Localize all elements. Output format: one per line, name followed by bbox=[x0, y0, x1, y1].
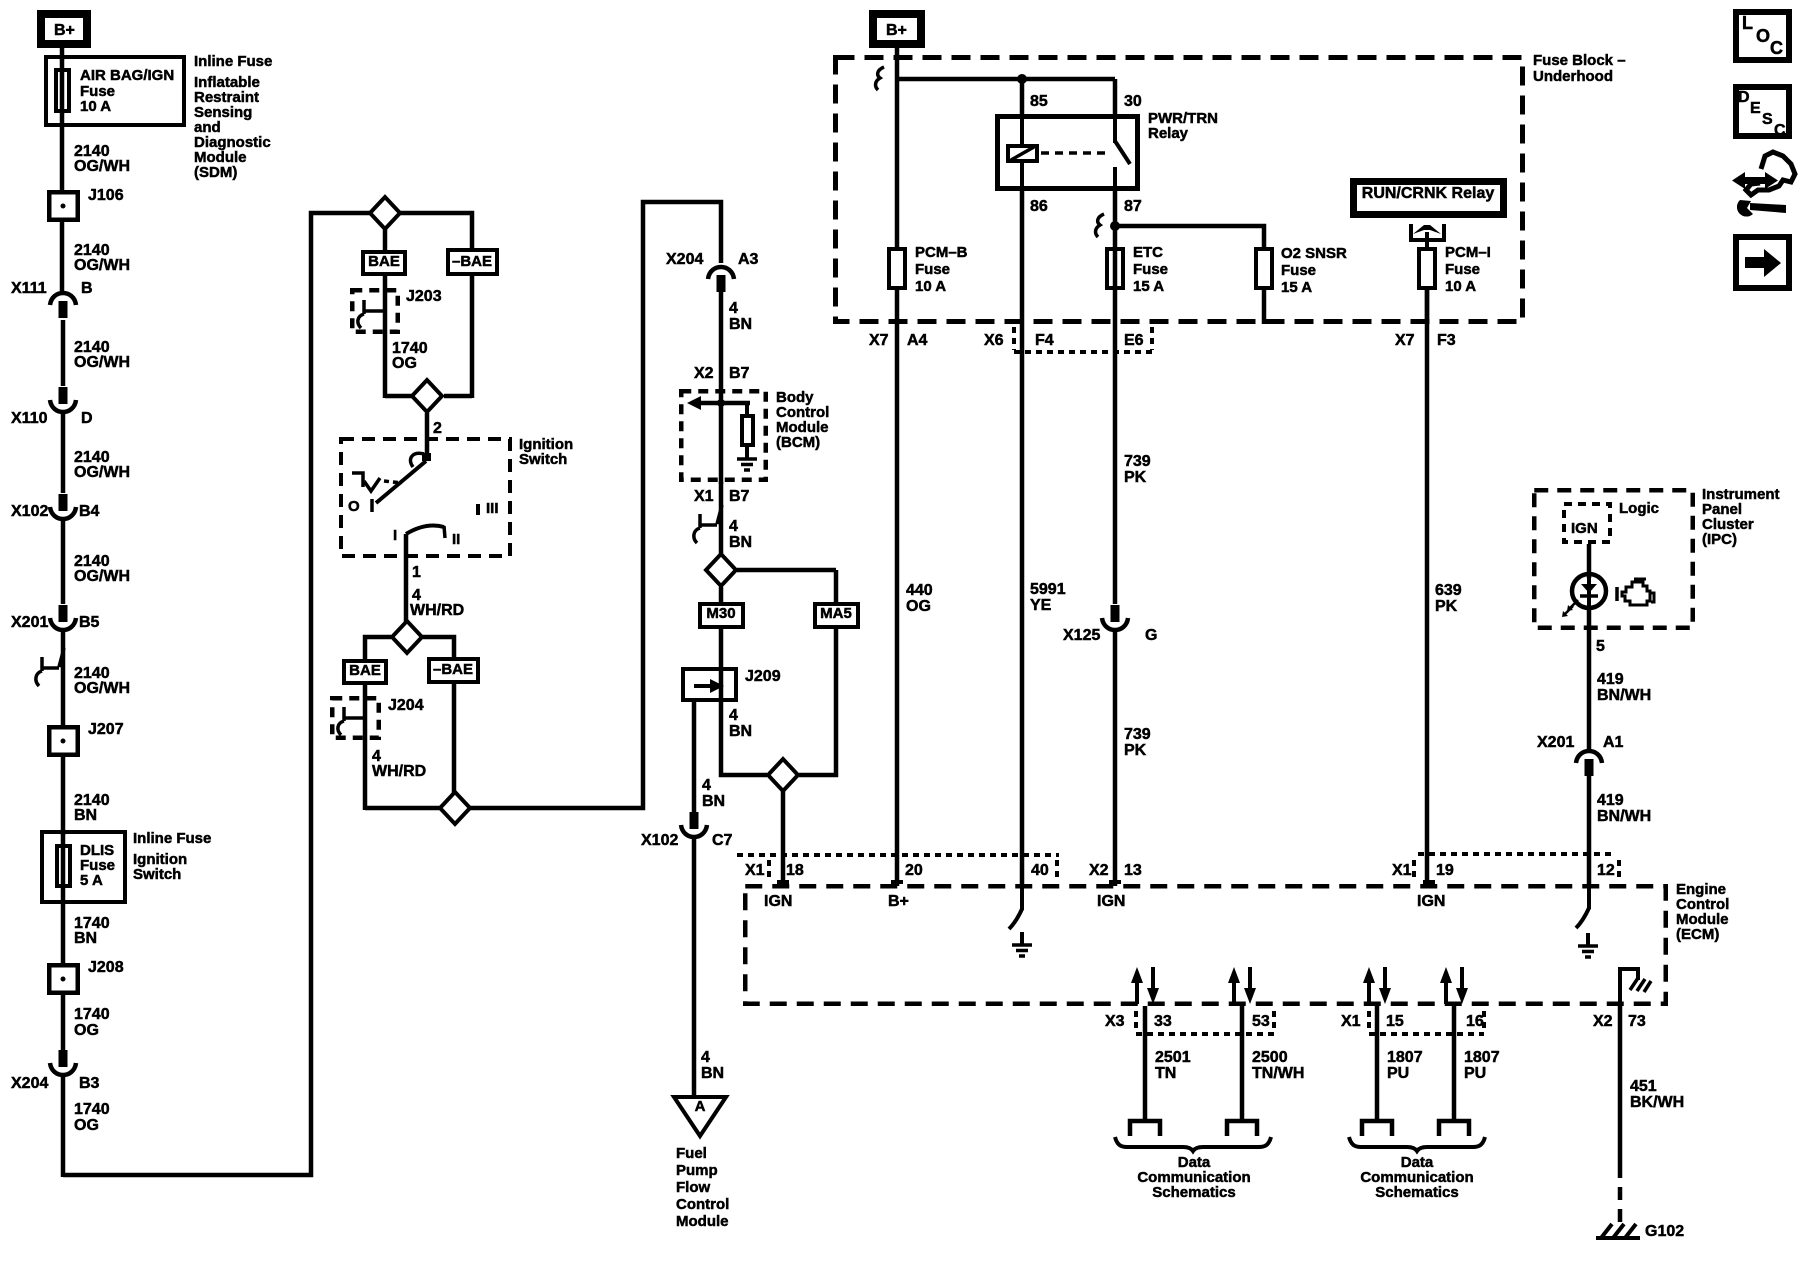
terminal BAE lower bbox=[344, 661, 386, 683]
svg-text:X7: X7 bbox=[869, 332, 889, 349]
svg-text:OG/WH: OG/WH bbox=[74, 158, 130, 175]
wire 2140 OG/WH X201 to J207 bbox=[61, 631, 66, 727]
wire 2140 OG/WH X110 to X102 bbox=[61, 413, 66, 493]
svg-text:F4: F4 bbox=[1035, 332, 1054, 349]
svg-text:Module: Module bbox=[676, 1213, 729, 1230]
svg-text:X110: X110 bbox=[11, 410, 48, 427]
svg-text:1740: 1740 bbox=[74, 1101, 110, 1118]
svg-text:C7: C7 bbox=[712, 832, 733, 849]
svg-text:PK: PK bbox=[1435, 598, 1458, 615]
svg-text:B+: B+ bbox=[54, 22, 75, 39]
brace data communication left bbox=[1115, 1137, 1271, 1151]
svg-text:86: 86 bbox=[1030, 198, 1048, 215]
svg-text:J203: J203 bbox=[406, 288, 442, 305]
wire diamond to -BAE branch bbox=[399, 213, 472, 250]
ignition switch positions I II arc bbox=[406, 526, 444, 534]
svg-text:16: 16 bbox=[1466, 1013, 1484, 1030]
svg-text:B5: B5 bbox=[79, 614, 100, 631]
connector X6 strip (dotted) bbox=[1012, 327, 1016, 350]
terminal MA5 bbox=[815, 604, 858, 627]
svg-text:OG/WH: OG/WH bbox=[74, 680, 130, 697]
BCM internal ground bbox=[737, 457, 757, 461]
svg-text:X2: X2 bbox=[1089, 862, 1109, 879]
svg-text:440: 440 bbox=[906, 582, 933, 599]
svg-text:639: 639 bbox=[1435, 582, 1462, 599]
svg-text:X204: X204 bbox=[11, 1075, 48, 1092]
svg-text:15 A: 15 A bbox=[1133, 278, 1164, 295]
svg-text:2: 2 bbox=[433, 420, 442, 437]
wire 1807 PU data 2 bbox=[1452, 1006, 1457, 1121]
svg-text:BN: BN bbox=[701, 1065, 724, 1082]
svg-text:BAE: BAE bbox=[368, 253, 400, 270]
splice diamond above BAE bbox=[370, 197, 400, 229]
svg-text:E6: E6 bbox=[1124, 332, 1144, 349]
svg-text:BN: BN bbox=[729, 723, 752, 740]
wire 2140 OG/WH X111 to X110 bbox=[61, 320, 66, 386]
svg-text:G102: G102 bbox=[1645, 1223, 1684, 1240]
wire 440 OG PCM-B fuse to ECM pin 20 bbox=[895, 290, 900, 886]
wire 2140 OG/WH J106 to X111 bbox=[60, 222, 65, 292]
inline fuse AIR BAG/IGN box bbox=[46, 57, 184, 125]
svg-text:(BCM): (BCM) bbox=[776, 434, 820, 451]
svg-text:BN: BN bbox=[729, 316, 752, 333]
svg-text:ETC: ETC bbox=[1133, 244, 1163, 261]
svg-text:III: III bbox=[486, 500, 499, 517]
clip at X201 bbox=[36, 648, 64, 686]
ground G102 symbol bbox=[1596, 1236, 1640, 1240]
svg-text:X7: X7 bbox=[1395, 332, 1415, 349]
check engine icon bbox=[1615, 587, 1619, 601]
ECM pin terminal feet bbox=[777, 880, 789, 884]
ECM internal switch to ground at pin 40 bbox=[1020, 886, 1024, 910]
fuse PCM-I 10A bbox=[1419, 249, 1435, 288]
svg-text:Inline Fuse: Inline Fuse bbox=[133, 830, 211, 847]
svg-text:X2: X2 bbox=[1593, 1013, 1613, 1030]
svg-text:X102: X102 bbox=[11, 503, 48, 520]
svg-text:5 A: 5 A bbox=[80, 872, 103, 889]
svg-text:OG: OG bbox=[392, 355, 417, 372]
svg-text:Underhood: Underhood bbox=[1533, 68, 1613, 85]
power feed B+ symbol (fuse block) bbox=[873, 14, 921, 44]
svg-text:IGN: IGN bbox=[1417, 893, 1445, 910]
svg-text:739: 739 bbox=[1124, 726, 1151, 743]
RUN/CRNK Relay source box bbox=[1354, 182, 1504, 215]
wire 5991 YE relay 86 to ECM pin 40 bbox=[1020, 324, 1025, 886]
wire 1807 PU data bbox=[1375, 1006, 1380, 1121]
ECM data link arrows bbox=[1135, 980, 1139, 1004]
brace data communication right bbox=[1349, 1137, 1485, 1151]
BCM internal arrow to logic bbox=[700, 401, 750, 406]
svg-text:X1: X1 bbox=[745, 862, 765, 879]
splice diamond to ignition switch bbox=[385, 394, 412, 399]
svg-text:85: 85 bbox=[1030, 93, 1048, 110]
junction block J204 (dashed) bbox=[332, 698, 379, 738]
svg-text:Fuse: Fuse bbox=[1133, 261, 1168, 278]
connector X102 terminal C7 bbox=[690, 812, 699, 829]
svg-text:10 A: 10 A bbox=[80, 98, 111, 115]
svg-text:BAE: BAE bbox=[349, 662, 381, 679]
svg-text:OG: OG bbox=[74, 1022, 99, 1039]
svg-text:MA5: MA5 bbox=[820, 605, 852, 622]
svg-text:5991: 5991 bbox=[1030, 581, 1066, 598]
svg-text:451: 451 bbox=[1630, 1078, 1657, 1095]
svg-text:PK: PK bbox=[1124, 469, 1147, 486]
svg-text:Flow: Flow bbox=[676, 1179, 710, 1196]
svg-text:Switch: Switch bbox=[133, 866, 181, 883]
wire to BAE lower left bbox=[365, 637, 391, 661]
fuse PCM-B 10A bbox=[889, 249, 905, 288]
fuse O2 SNSR 15A bbox=[1256, 249, 1272, 288]
svg-text:TN: TN bbox=[1155, 1065, 1176, 1082]
wire ignition switch pin 1 down bbox=[404, 534, 409, 622]
svg-text:X1: X1 bbox=[1392, 862, 1412, 879]
svg-text:J209: J209 bbox=[745, 668, 781, 685]
connector X110 terminal D bbox=[59, 387, 68, 404]
ECM internal ground output to pin 73 bbox=[1620, 969, 1638, 1004]
svg-text:B: B bbox=[81, 280, 93, 297]
svg-text:X6: X6 bbox=[984, 332, 1004, 349]
wire 1740 OG J208 to X204 bbox=[61, 995, 66, 1050]
ECM connector strip pins 19 12 (dotted) bbox=[1418, 852, 1612, 856]
svg-text:Fuse: Fuse bbox=[1281, 262, 1316, 279]
icon jump arrows and wrench bbox=[1732, 172, 1745, 189]
wire 2140 OG/WH fuse to J106 bbox=[60, 127, 65, 192]
instrument panel cluster IPC box (dashed) bbox=[1534, 490, 1693, 628]
svg-text:(IPC): (IPC) bbox=[1702, 531, 1737, 548]
ECM connector X1 strip (dotted) bbox=[737, 853, 1059, 857]
svg-text:AIR BAG/IGN: AIR BAG/IGN bbox=[80, 67, 174, 84]
svg-text:419: 419 bbox=[1597, 671, 1624, 688]
svg-text:B7: B7 bbox=[729, 365, 750, 382]
svg-text:WH/RD: WH/RD bbox=[410, 602, 464, 619]
svg-text:X201: X201 bbox=[1537, 734, 1574, 751]
clip in J203 bbox=[358, 300, 385, 328]
fuse AIR BAG/IGN 10A element bbox=[60, 58, 65, 124]
svg-text:Fuse: Fuse bbox=[1445, 261, 1480, 278]
svg-text:TN/WH: TN/WH bbox=[1252, 1065, 1304, 1082]
svg-text:419: 419 bbox=[1597, 792, 1624, 809]
svg-text:F3: F3 bbox=[1437, 332, 1456, 349]
svg-text:G: G bbox=[1145, 627, 1157, 644]
IPC logic block IGN (dashed) bbox=[1564, 504, 1610, 542]
svg-text:BN: BN bbox=[702, 793, 725, 810]
svg-text:18: 18 bbox=[786, 862, 804, 879]
svg-text:73: 73 bbox=[1628, 1013, 1646, 1030]
svg-text:20: 20 bbox=[905, 862, 923, 879]
svg-text:53: 53 bbox=[1252, 1013, 1270, 1030]
PWR/TRN relay box bbox=[998, 117, 1138, 189]
wire 4 BN X102 to fuel pump module bbox=[692, 838, 697, 1099]
svg-text:J208: J208 bbox=[88, 959, 124, 976]
svg-text:(SDM): (SDM) bbox=[194, 164, 237, 181]
svg-text:OG/WH: OG/WH bbox=[74, 568, 130, 585]
svg-text:2501: 2501 bbox=[1155, 1049, 1191, 1066]
relay coil-contact link (dashed) bbox=[1041, 151, 1105, 155]
svg-text:O2 SNSR: O2 SNSR bbox=[1281, 245, 1347, 262]
terminal -BAE bbox=[448, 250, 497, 274]
svg-text:L: L bbox=[1742, 13, 1753, 33]
icon DESC box bbox=[1736, 87, 1789, 136]
wire 1740 OG below BAE bbox=[383, 276, 388, 398]
svg-text:1807: 1807 bbox=[1387, 1049, 1423, 1066]
wire through BCM bbox=[719, 390, 724, 484]
svg-text:PU: PU bbox=[1464, 1065, 1486, 1082]
svg-text:IGN: IGN bbox=[1097, 893, 1125, 910]
svg-text:10 A: 10 A bbox=[915, 278, 946, 295]
wire to PWR/TRN relay coil and contact bbox=[897, 77, 1115, 82]
svg-text:(ECM): (ECM) bbox=[1676, 926, 1719, 943]
wire IGN to indicator LED bbox=[1587, 544, 1592, 578]
wire 2140 OG/WH X102 to X201 bbox=[61, 520, 66, 604]
wire 739 PK ETC fuse to X125 bbox=[1113, 324, 1118, 604]
wire splice to X204 A3 run bbox=[470, 202, 721, 808]
terminal M30 bbox=[719, 587, 724, 604]
svg-text:1: 1 bbox=[412, 564, 421, 581]
svg-text:Fuse: Fuse bbox=[915, 261, 950, 278]
splice diamond to ECM IGN feed bbox=[768, 759, 798, 791]
svg-text:BK/WH: BK/WH bbox=[1630, 1094, 1684, 1111]
clip at X1 B7 bbox=[694, 505, 722, 543]
svg-text:–BAE: –BAE bbox=[452, 253, 492, 270]
junction block J203 (dashed) bbox=[352, 290, 398, 332]
indicator LED circle bbox=[1572, 574, 1606, 608]
svg-text:Fuse Block –: Fuse Block – bbox=[1533, 52, 1626, 69]
svg-text:Schematics: Schematics bbox=[1375, 1184, 1458, 1201]
wire diamond to BAE branch bbox=[383, 228, 388, 252]
relay coil bbox=[1020, 114, 1024, 146]
svg-text:1740: 1740 bbox=[74, 1006, 110, 1023]
ignition switch ACC contact bbox=[352, 473, 363, 487]
svg-text:739: 739 bbox=[1124, 453, 1151, 470]
ECM bottom pin strips (dotted) bbox=[1134, 1011, 1138, 1031]
wire 451 BK/WH to G102 bbox=[1618, 1006, 1623, 1165]
splice J207 bbox=[49, 727, 78, 755]
svg-text:Fuel: Fuel bbox=[676, 1145, 707, 1162]
wire 2500 TN/WH data bbox=[1240, 1006, 1245, 1121]
splice J106 bbox=[49, 192, 78, 220]
svg-text:E: E bbox=[1750, 100, 1761, 117]
connector X102 terminal B4 bbox=[59, 494, 68, 511]
svg-text:Pump: Pump bbox=[676, 1162, 718, 1179]
wire 2140 BN J207 to DLIS fuse bbox=[61, 757, 66, 835]
splice J208 bbox=[49, 965, 78, 993]
junction node relay pin 85 bbox=[1017, 74, 1027, 84]
svg-text:Logic: Logic bbox=[1619, 500, 1659, 517]
ignition switch movable contact bbox=[410, 453, 424, 467]
ignition switch position III bbox=[476, 504, 480, 515]
svg-text:4: 4 bbox=[702, 777, 711, 794]
svg-text:87: 87 bbox=[1124, 198, 1142, 215]
svg-text:A3: A3 bbox=[738, 251, 759, 268]
body control module BCM box (dashed) bbox=[681, 391, 766, 480]
svg-text:M30: M30 bbox=[706, 605, 735, 622]
svg-text:D: D bbox=[81, 410, 93, 427]
svg-text:B4: B4 bbox=[79, 503, 100, 520]
svg-text:4: 4 bbox=[729, 707, 738, 724]
svg-text:RUN/CRNK Relay: RUN/CRNK Relay bbox=[1362, 185, 1495, 202]
svg-text:S: S bbox=[1762, 111, 1773, 128]
svg-text:J106: J106 bbox=[88, 187, 124, 204]
svg-text:PU: PU bbox=[1387, 1065, 1409, 1082]
svg-text:X1: X1 bbox=[694, 488, 714, 505]
connector X204 terminal B3 bbox=[59, 1050, 68, 1067]
relay contact blade pins 30-87 bbox=[1113, 114, 1117, 143]
svg-text:2500: 2500 bbox=[1252, 1049, 1288, 1066]
svg-text:B3: B3 bbox=[79, 1075, 100, 1092]
wire splice to ECM pin 18 bbox=[781, 791, 786, 886]
wire B+ to inline fuse bbox=[60, 44, 65, 60]
svg-text:WH/RD: WH/RD bbox=[372, 763, 426, 780]
power feed B+ (battery positive) symbol bbox=[41, 14, 87, 44]
svg-text:4: 4 bbox=[729, 300, 738, 317]
svg-text:13: 13 bbox=[1124, 862, 1142, 879]
svg-text:YE: YE bbox=[1030, 597, 1052, 614]
terminal -BAE lower bbox=[429, 659, 478, 682]
terminal BAE bbox=[363, 252, 405, 274]
svg-text:30: 30 bbox=[1124, 93, 1142, 110]
svg-text:X3: X3 bbox=[1105, 1013, 1125, 1030]
wire IPC pin 5 to X201 A1 bbox=[1587, 608, 1592, 750]
svg-text:Schematics: Schematics bbox=[1152, 1184, 1235, 1201]
splice diamond output bbox=[365, 806, 440, 811]
wire splice to ignition switch pin 2 bbox=[425, 413, 430, 458]
fuse ETC 15A bbox=[1107, 249, 1123, 288]
svg-text:PK: PK bbox=[1124, 742, 1147, 759]
svg-text:BN/WH: BN/WH bbox=[1597, 808, 1651, 825]
junction block J209 bbox=[683, 669, 736, 700]
svg-text:12: 12 bbox=[1597, 862, 1615, 879]
ignition switch box (dashed) bbox=[341, 439, 510, 556]
svg-text:5: 5 bbox=[1596, 638, 1605, 655]
splice diamond to M30/MA5 bbox=[706, 554, 736, 586]
icon LOC box bbox=[1736, 12, 1789, 60]
underhood fuse block box (dashed) bbox=[836, 58, 1523, 322]
wire M30 to J209 bbox=[719, 629, 724, 670]
svg-text:O: O bbox=[1756, 26, 1770, 46]
svg-text:B+: B+ bbox=[888, 893, 909, 910]
svg-text:PCM–I: PCM–I bbox=[1445, 244, 1491, 261]
relay pin 86 wire bbox=[1020, 191, 1025, 324]
connector X201 terminal B5 bbox=[59, 605, 68, 622]
svg-text:OG/WH: OG/WH bbox=[74, 464, 130, 481]
svg-text:15: 15 bbox=[1386, 1013, 1404, 1030]
RUN/CRNK relay output symbol bbox=[1409, 224, 1413, 242]
off-page triangle A fuel pump flow control module bbox=[674, 1097, 726, 1136]
clip in J204 bbox=[338, 707, 365, 735]
splice diamond below ignition switch bbox=[392, 621, 422, 653]
svg-text:OG: OG bbox=[74, 1117, 99, 1134]
wire B+ into fuse block bbox=[895, 44, 900, 250]
svg-text:Control: Control bbox=[676, 1196, 729, 1213]
wire 2501 TN data bbox=[1143, 1006, 1148, 1121]
svg-text:I: I bbox=[393, 527, 397, 544]
svg-text:X111: X111 bbox=[11, 280, 47, 297]
svg-text:Switch: Switch bbox=[519, 451, 567, 468]
svg-text:B+: B+ bbox=[886, 22, 907, 39]
svg-text:Inline Fuse: Inline Fuse bbox=[194, 53, 272, 70]
svg-text:–BAE: –BAE bbox=[433, 661, 473, 678]
svg-text:IGN: IGN bbox=[764, 893, 792, 910]
svg-text:B7: B7 bbox=[729, 488, 750, 505]
svg-text:X2: X2 bbox=[694, 365, 714, 382]
svg-text:1807: 1807 bbox=[1464, 1049, 1500, 1066]
svg-text:PCM–B: PCM–B bbox=[915, 244, 968, 261]
svg-text:4: 4 bbox=[701, 1049, 710, 1066]
svg-text:O: O bbox=[348, 498, 360, 515]
ECM internal switch to ground at pin 12 bbox=[1587, 886, 1591, 909]
wire 1740 OG X204 to ignition switch feed bbox=[61, 1076, 66, 1177]
svg-text:OG: OG bbox=[906, 598, 931, 615]
svg-text:19: 19 bbox=[1436, 862, 1454, 879]
svg-text:X1: X1 bbox=[1341, 1013, 1361, 1030]
svg-text:X204: X204 bbox=[666, 251, 703, 268]
wire run across bottom and up to splice diamond bbox=[63, 213, 371, 1175]
svg-text:15 A: 15 A bbox=[1281, 279, 1312, 296]
svg-text:BN: BN bbox=[74, 930, 97, 947]
clip at fuse block feed bbox=[876, 67, 884, 90]
svg-text:X201: X201 bbox=[11, 614, 48, 631]
wire 4 BN J209 branch to X102 bbox=[692, 700, 697, 813]
svg-text:D: D bbox=[1738, 89, 1750, 106]
BCM internal resistor bbox=[745, 403, 749, 416]
engine control module ECM box (dashed) bbox=[745, 886, 1666, 1004]
wire 4 BN J209 to lower splice bbox=[721, 702, 767, 775]
wire 1740 BN DLIS to J208 bbox=[61, 904, 66, 965]
wire BCM through to X1 B7 bbox=[719, 482, 724, 556]
svg-text:II: II bbox=[452, 531, 460, 548]
wire 4 BN A3 to BCM bbox=[719, 291, 724, 392]
svg-text:C: C bbox=[1774, 122, 1786, 139]
svg-text:4: 4 bbox=[729, 518, 738, 535]
inline fuse DLIS box bbox=[42, 832, 125, 902]
wire 419 BN/WH X201 to ECM pin 12 bbox=[1587, 775, 1592, 886]
wire 4 WH/RD BAE lower down bbox=[363, 685, 368, 810]
svg-text:BN/WH: BN/WH bbox=[1597, 687, 1651, 704]
svg-text:J207: J207 bbox=[88, 721, 124, 738]
relay pin 87 wire bbox=[1113, 191, 1118, 324]
svg-text:OG/WH: OG/WH bbox=[74, 257, 130, 274]
svg-text:33: 33 bbox=[1154, 1013, 1172, 1030]
connector X125 terminal G bbox=[1111, 605, 1120, 622]
wire to -BAE lower right bbox=[423, 637, 454, 659]
svg-text:C: C bbox=[1770, 38, 1783, 58]
svg-text:40: 40 bbox=[1031, 862, 1049, 879]
svg-text:X102: X102 bbox=[641, 832, 678, 849]
wire to MA5 bbox=[834, 570, 839, 604]
wire MA5 down to lower splice bbox=[799, 629, 836, 775]
wire -BAE down bbox=[470, 276, 475, 398]
junction node to O2 SNSR fuse bbox=[1110, 221, 1120, 231]
J209 internal branch arrow bbox=[694, 684, 712, 688]
wire 739 PK X125 to ECM pin 13 bbox=[1113, 631, 1118, 886]
wire 639 PK PCM-I fuse to ECM pin 19 bbox=[1425, 290, 1430, 886]
svg-text:BN: BN bbox=[729, 534, 752, 551]
wire relay pin 30 bbox=[1113, 79, 1118, 116]
svg-text:Relay: Relay bbox=[1148, 125, 1189, 142]
svg-text:IGN: IGN bbox=[1571, 520, 1598, 537]
fuse DLIS 5A element bbox=[61, 833, 66, 901]
svg-text:J204: J204 bbox=[388, 697, 424, 714]
svg-text:OG/WH: OG/WH bbox=[74, 354, 130, 371]
LED light arrows bbox=[1570, 600, 1578, 608]
icon forward arrow box bbox=[1736, 237, 1789, 288]
svg-text:A4: A4 bbox=[907, 332, 928, 349]
wire -BAE lower down bbox=[452, 683, 457, 793]
svg-text:A: A bbox=[695, 1098, 706, 1115]
svg-text:X125: X125 bbox=[1063, 627, 1100, 644]
svg-text:10 A: 10 A bbox=[1445, 278, 1476, 295]
svg-text:A1: A1 bbox=[1603, 734, 1624, 751]
